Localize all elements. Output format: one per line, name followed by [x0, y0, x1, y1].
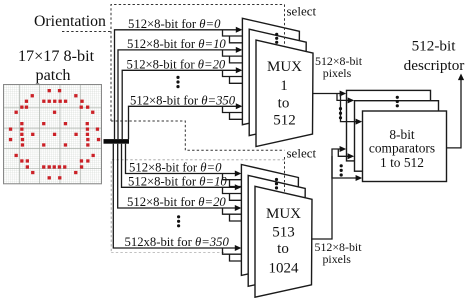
svg-text:1024: 1024	[269, 261, 300, 277]
svg-text:512: 512	[273, 113, 296, 129]
wire 512x8-bit theta=0 (top)	[115, 27, 257, 139]
orientation dashed connector	[62, 31, 111, 33]
svg-text:pixels: pixels	[323, 66, 352, 80]
wire 512x8-bit theta=0 (bottom)	[126, 144, 256, 190]
svg-text:MUX: MUX	[267, 59, 302, 75]
svg-text:512×8-bit for θ=0: 512×8-bit for θ=0	[128, 17, 221, 31]
svg-text:512x8-bit for θ=350: 512x8-bit for θ=350	[125, 235, 230, 249]
MUX 513 to 1024 stack (middle layer)	[248, 175, 305, 286]
wire 512x8-bit theta=350 (top)	[129, 103, 257, 139]
MUX 513 to 1024 (front layer)	[255, 186, 312, 297]
label: 512x8-bit pixels (top)	[315, 54, 363, 80]
wire 512x8-bit theta=20 (bottom)	[118, 144, 255, 224]
ellipsis dots MUX2 select	[275, 178, 278, 190]
wire 512x8-bit theta=10 (top)	[118, 47, 256, 139]
bus (thick) from patch	[104, 139, 130, 144]
patch sample dots (BRIEF pattern)	[9, 89, 100, 180]
label wire theta=10 (bottom)	[128, 174, 227, 188]
comparator input arrows from MUX1	[337, 91, 362, 125]
8-bit comparators stack (back layer)	[347, 90, 431, 160]
svg-text:to: to	[278, 96, 290, 112]
ellipsis dots comparators top	[396, 96, 399, 108]
svg-text:512-bit: 512-bit	[412, 37, 457, 54]
label wire theta=0 (top)	[128, 17, 221, 31]
8-bit comparators 1 to 512 (front layer)	[363, 111, 447, 182]
wire 512x8-bit theta=20 (top)	[122, 67, 256, 139]
patch grid (17x17 8-bit patch)	[4, 85, 102, 184]
MUX 1 to 512 stack (back layer)	[242, 18, 299, 124]
label: 512x8-bit pixels (bottom)	[315, 240, 363, 266]
svg-text:1: 1	[280, 78, 288, 94]
ellipsis dots bottom label group	[177, 215, 180, 227]
svg-text:patch: patch	[35, 66, 70, 84]
svg-text:select: select	[287, 145, 317, 160]
dashed box around top wire group	[111, 5, 285, 122]
descriptor output arrowhead	[458, 74, 464, 81]
label: Orientation	[34, 13, 106, 30]
ellipsis dots comparator inputs (top bundle)	[339, 107, 342, 119]
svg-text:17×17 8-bit: 17×17 8-bit	[18, 47, 95, 65]
svg-text:512×8-bit for θ=0: 512×8-bit for θ=0	[129, 161, 222, 175]
svg-text:512×8-bit for θ=20: 512×8-bit for θ=20	[127, 195, 226, 209]
svg-text:to: to	[277, 241, 289, 257]
wire 512x8-bit theta=350 (bottom)	[113, 144, 255, 264]
label wire theta=350 (top)	[130, 93, 236, 107]
comparators text	[369, 127, 435, 170]
label wire theta=350 (bottom)	[125, 235, 230, 249]
descriptor output wire	[447, 79, 461, 148]
MUX 1 to 512 (front layer)	[256, 40, 313, 146]
svg-text:Orientation: Orientation	[34, 13, 106, 30]
label: select (bottom)	[287, 145, 317, 160]
label: 17x17 8-bit patch	[18, 47, 95, 84]
ellipsis dots comparator inputs (bottom bundle)	[340, 164, 343, 176]
ellipsis dots top label group	[176, 76, 179, 88]
svg-text:MUX: MUX	[266, 206, 301, 222]
svg-text:1 to 512: 1 to 512	[380, 155, 424, 170]
label wire theta=20 (bottom)	[127, 195, 226, 209]
label: select (top)	[287, 3, 317, 18]
dashed box bottom group lower edge (very faint)	[111, 252, 225, 254]
select line 1 (dashed, into MUX1)	[284, 5, 286, 47]
svg-text:comparators: comparators	[369, 141, 435, 156]
MUX 1 to 512 stack (middle layer)	[249, 29, 306, 135]
svg-text:512×8-bit for θ=10: 512×8-bit for θ=10	[128, 174, 227, 188]
ellipsis dots MUX1 select	[275, 33, 278, 44]
dashed box around bottom wire group	[111, 160, 284, 253]
MUX 513 to 1024 stack (back layer)	[241, 165, 298, 276]
svg-text:512×8-bit for θ=10: 512×8-bit for θ=10	[127, 37, 226, 51]
label: 512-bit descriptor	[404, 37, 465, 74]
MUX1 text	[267, 59, 302, 129]
select line 2 (dashed, into MUX2)	[284, 157, 286, 193]
comparator input arrows from MUX2	[332, 146, 362, 181]
label wire theta=20 (top)	[127, 58, 226, 72]
svg-text:pixels: pixels	[322, 252, 351, 266]
MUX1 output wire	[313, 93, 341, 95]
svg-text:512×8-bit for θ=20: 512×8-bit for θ=20	[127, 58, 226, 72]
svg-text:513: 513	[272, 225, 295, 241]
wire 512x8-bit theta=10 (bottom)	[122, 144, 256, 204]
MUX2 output wire (up to comparators)	[312, 149, 341, 239]
MUX2 text	[266, 206, 301, 277]
label wire theta=0 (bottom)	[129, 161, 222, 175]
svg-text:descriptor: descriptor	[404, 57, 465, 74]
svg-text:512×8-bit for θ=350: 512×8-bit for θ=350	[130, 93, 236, 107]
label wire theta=10 (top)	[127, 37, 226, 51]
8-bit comparators stack (middle layer)	[355, 101, 439, 172]
svg-text:select: select	[287, 3, 317, 18]
